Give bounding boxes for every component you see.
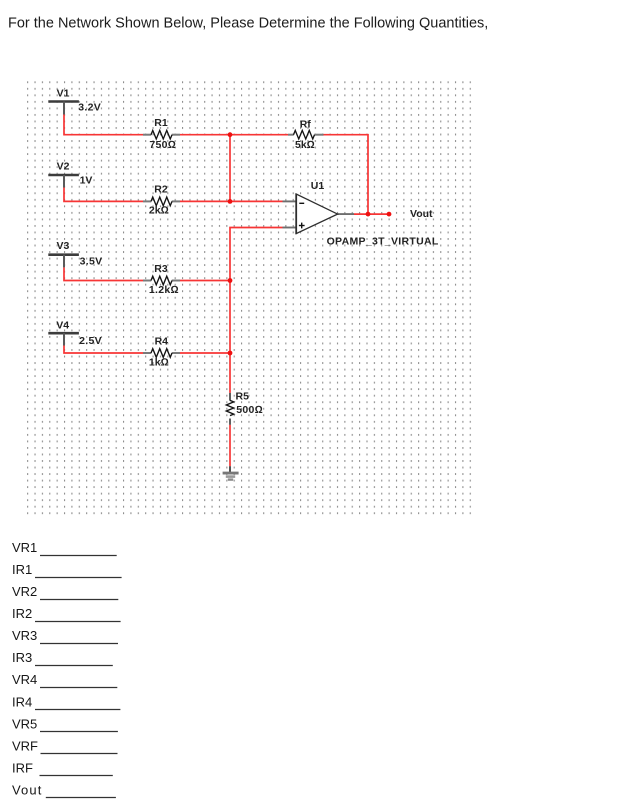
wire R1 to node A — [180, 134, 230, 136]
resistor R3 1.2kohm — [143, 263, 180, 296]
svg-text:R4: R4 — [155, 335, 169, 347]
svg-text:1V: 1V — [80, 175, 93, 187]
wire Rf to output node — [324, 135, 369, 214]
svg-text:IR3: IR3 — [12, 650, 32, 665]
voltage source V1 — [48, 88, 101, 115]
svg-text:V2: V2 — [57, 161, 70, 173]
svg-text:VR3: VR3 — [12, 628, 37, 643]
wire op-amp noninverting input to node C — [230, 228, 283, 281]
svg-text:2kΩ: 2kΩ — [149, 205, 169, 217]
wire node C to node D — [229, 281, 231, 354]
voltage source V2 — [48, 161, 92, 188]
wire node D to R5 — [229, 353, 231, 393]
svg-text:VR2: VR2 — [12, 584, 37, 599]
junction output node — [366, 212, 371, 217]
junction node B — [228, 199, 233, 204]
svg-text:3.5V: 3.5V — [80, 256, 103, 268]
op-amp U1 — [283, 180, 439, 248]
svg-text:V1: V1 — [57, 88, 70, 100]
svg-text:For the Network Shown Below, P: For the Network Shown Below, Please Dete… — [8, 16, 488, 32]
svg-text:Vout: Vout — [12, 783, 42, 798]
wire V1 to R1 — [64, 115, 143, 135]
wire V4 to R4 — [64, 346, 143, 354]
junction node A — [228, 132, 233, 137]
wire node A to Rf — [230, 134, 288, 136]
svg-text:500Ω: 500Ω — [236, 404, 263, 416]
svg-text:R2: R2 — [154, 183, 168, 195]
svg-text:R1: R1 — [154, 117, 168, 129]
terminal Vout — [387, 212, 392, 217]
junction node D — [228, 351, 233, 356]
svg-text:R3: R3 — [154, 263, 168, 275]
wire V2 to R2 — [64, 188, 143, 202]
resistor R1 750ohm — [143, 117, 180, 151]
svg-text:Rf: Rf — [300, 118, 312, 130]
resistor R2 2kohm — [143, 183, 180, 216]
wire node A to node B — [229, 135, 231, 202]
svg-text:VR5: VR5 — [12, 716, 37, 731]
svg-text:1kΩ: 1kΩ — [149, 357, 169, 369]
svg-text:U1: U1 — [311, 180, 325, 192]
svg-text:5kΩ: 5kΩ — [295, 139, 315, 151]
wire R2 to node B — [180, 200, 230, 202]
wire op-amp output to Vout — [354, 213, 389, 215]
resistor R4 1kohm — [143, 335, 180, 368]
svg-text:V3: V3 — [57, 240, 70, 252]
wire R5 to ground — [229, 425, 231, 466]
svg-text:VR4: VR4 — [12, 672, 37, 687]
svg-text:V4: V4 — [56, 320, 69, 332]
wire R4 to node D — [180, 352, 230, 354]
voltage source V4 — [48, 320, 102, 347]
wire R3 to node C — [180, 280, 230, 282]
grid dots background — [27, 80, 472, 515]
svg-text:R5: R5 — [236, 391, 250, 403]
svg-text:750Ω: 750Ω — [149, 139, 176, 151]
resistor R5 500ohm vertical — [226, 391, 263, 425]
junction node C — [228, 278, 233, 283]
svg-text:VRF: VRF — [12, 738, 38, 753]
svg-text:IRF: IRF — [12, 760, 33, 775]
svg-text:Vout: Vout — [410, 208, 433, 220]
svg-text:1.2kΩ: 1.2kΩ — [149, 284, 179, 296]
svg-text:IR1: IR1 — [12, 562, 32, 577]
voltage source V3 — [48, 240, 102, 268]
ground — [223, 466, 239, 479]
wire node B to op-amp inverting input — [230, 200, 283, 202]
svg-text:VR1: VR1 — [12, 540, 37, 555]
svg-text:IR2: IR2 — [12, 606, 32, 621]
svg-text:3.2V: 3.2V — [78, 102, 101, 114]
resistor Rf 5kohm — [288, 118, 324, 151]
svg-text:OPAMP_3T_VIRTUAL: OPAMP_3T_VIRTUAL — [327, 236, 439, 248]
wire V3 to R3 — [64, 267, 143, 280]
svg-text:IR4: IR4 — [12, 694, 32, 709]
svg-text:2.5V: 2.5V — [79, 335, 102, 347]
